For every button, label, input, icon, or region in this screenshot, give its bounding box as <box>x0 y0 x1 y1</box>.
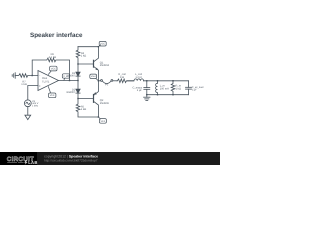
svg-text:1N4007: 1N4007 <box>66 91 76 94</box>
svg-text:4.2 kΩ: 4.2 kΩ <box>49 56 57 59</box>
svg-text:LAB: LAB <box>28 160 38 165</box>
svg-text:8 Ω: 8 Ω <box>120 76 124 79</box>
svg-text:-: - <box>39 74 40 78</box>
svg-text:Speaker interface: Speaker interface <box>30 32 83 39</box>
svg-text:2N3906: 2N3906 <box>100 102 110 105</box>
svg-text:Vout: Vout <box>91 75 96 78</box>
svg-text:1 kΩ: 1 kΩ <box>81 55 86 58</box>
svg-text:1 µF: 1 µF <box>192 89 197 92</box>
svg-text:100 mH: 100 mH <box>160 87 169 90</box>
svg-text:1 kΩ: 1 kΩ <box>21 83 26 86</box>
svg-text:VCC: VCC <box>100 43 105 46</box>
svg-text:VEE: VEE <box>50 94 55 97</box>
svg-text:1 mH: 1 mH <box>135 76 141 79</box>
svg-text:1 kΩ: 1 kΩ <box>176 87 181 90</box>
svg-text:http://circuitlab.com/c6k8725d: http://circuitlab.com/c6k8725dsm9op7 <box>44 159 98 163</box>
svg-text:1 kHz: 1 kHz <box>32 105 39 108</box>
svg-text:1N4007: 1N4007 <box>66 74 76 77</box>
svg-text:2N3904: 2N3904 <box>100 64 110 67</box>
svg-text:1 kΩ: 1 kΩ <box>81 108 86 111</box>
svg-text:VCC: VCC <box>51 67 56 70</box>
svg-text:VEE: VEE <box>101 120 106 123</box>
svg-text:+: + <box>39 84 41 88</box>
svg-text:1 µF: 1 µF <box>137 89 143 92</box>
svg-text:TL071: TL071 <box>42 80 50 83</box>
